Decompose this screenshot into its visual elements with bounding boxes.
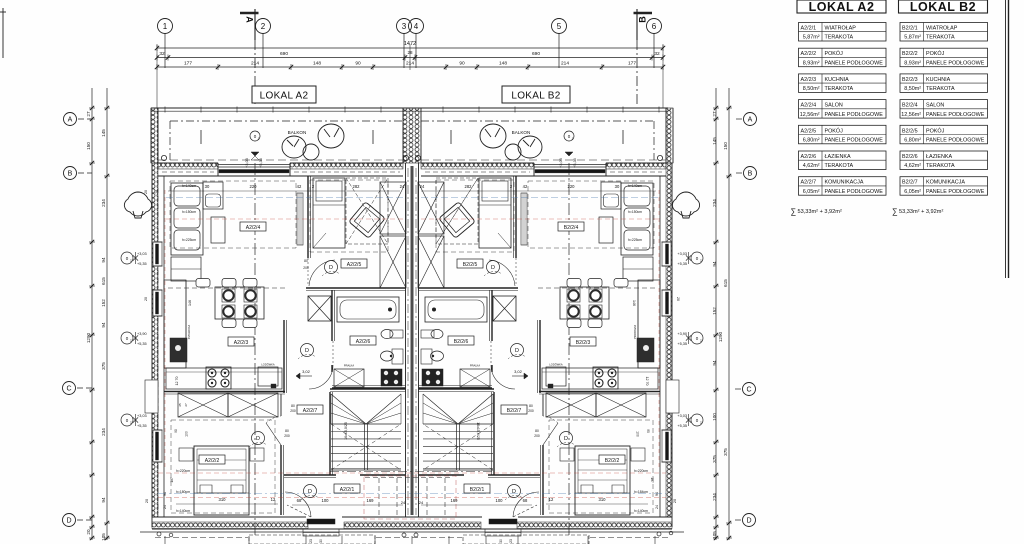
svg-text:TERAKOTA: TERAKOTA bbox=[926, 86, 955, 92]
svg-text:146: 146 bbox=[188, 300, 192, 306]
table row A2/2/5 POKÓJ bbox=[799, 125, 887, 144]
riser line red right wall bbox=[658, 190, 660, 470]
black dashed verticals hall B2 bbox=[444, 478, 446, 516]
level marker O2 right 3 bbox=[691, 414, 703, 426]
interior wall bedroom top A2 bbox=[164, 391, 285, 393]
stairs winder fan A2 bbox=[331, 394, 366, 424]
svg-text:B: B bbox=[68, 171, 73, 178]
svg-text:282: 282 bbox=[465, 184, 473, 189]
svg-text:6,05m²: 6,05m² bbox=[803, 189, 820, 195]
heating pipe line red upper A2 bbox=[166, 218, 403, 220]
svg-text:B2/2/2: B2/2/2 bbox=[902, 51, 918, 57]
svg-text:152: 152 bbox=[101, 299, 106, 307]
bedside tables B2 bbox=[631, 448, 645, 461]
svg-text:KOMUNIKACJA: KOMUNIKACJA bbox=[825, 180, 864, 186]
svg-text:27: 27 bbox=[86, 111, 91, 117]
table row B2/2/4 SALON bbox=[900, 100, 988, 119]
balcony post mark left 2 bbox=[372, 130, 374, 144]
kitchen sink B2 bbox=[637, 338, 654, 362]
heating pipe line red lower 1 bbox=[158, 472, 666, 474]
svg-text:D: D bbox=[256, 436, 260, 442]
svg-text:A: A bbox=[245, 16, 255, 23]
svg-text:145: 145 bbox=[101, 129, 106, 137]
svg-text:148: 148 bbox=[499, 61, 507, 67]
svg-text:145: 145 bbox=[712, 137, 717, 145]
svg-text:B2/2/1: B2/2/1 bbox=[902, 26, 918, 32]
svg-text:+3,03: +3,03 bbox=[245, 158, 249, 168]
stairs winder fan B2 bbox=[458, 394, 493, 424]
svg-text:+5,35: +5,35 bbox=[677, 262, 687, 266]
svg-text:PANELE PODŁOGOWE: PANELE PODŁOGOWE bbox=[926, 189, 985, 195]
toilet B2 bbox=[421, 330, 434, 338]
column marker right corner bbox=[657, 155, 662, 160]
svg-text:8,50m²: 8,50m² bbox=[904, 86, 921, 92]
svg-text:53,33m² + 3,92m²: 53,33m² + 3,92m² bbox=[798, 209, 842, 215]
svg-text:+3,90: +3,90 bbox=[137, 332, 147, 336]
kitchen counter bottom A2 bbox=[166, 368, 282, 389]
svg-text:30: 30 bbox=[205, 184, 210, 189]
side shelf salon B2 bbox=[623, 257, 653, 281]
armchair room5 B2 bbox=[439, 202, 476, 239]
dashed wardrobe projection room5 B2 bbox=[436, 178, 478, 244]
interior wall bathroom left B2 bbox=[491, 290, 493, 341]
interior wall bathroom left A2 bbox=[331, 290, 333, 341]
top exterior wall insulation left segment bbox=[158, 163, 218, 169]
axis circle A right bbox=[744, 113, 757, 126]
wardrobe column room5 A2 bbox=[380, 182, 406, 234]
svg-text:B2/2/7: B2/2/7 bbox=[902, 180, 918, 186]
svg-text:A2/2/5: A2/2/5 bbox=[801, 128, 817, 134]
svg-text:h=180cm: h=180cm bbox=[176, 490, 190, 494]
svg-text:53,33m² + 3,92m²: 53,33m² + 3,92m² bbox=[899, 209, 943, 215]
entrance door B2 bbox=[489, 519, 517, 524]
svg-text:100: 100 bbox=[712, 413, 717, 421]
svg-text:200: 200 bbox=[528, 409, 534, 413]
bottom exterior wall body bbox=[152, 516, 306, 518]
svg-text:68: 68 bbox=[523, 498, 528, 503]
svg-text:20: 20 bbox=[676, 297, 680, 301]
svg-text:25: 25 bbox=[178, 403, 182, 407]
svg-text:4,62m²: 4,62m² bbox=[904, 163, 921, 169]
black dashed verticals hall A2 bbox=[378, 478, 380, 516]
svg-text:24: 24 bbox=[400, 184, 405, 189]
paving dashes below right terrace bbox=[463, 535, 589, 544]
bedroom door leaf B2 bbox=[543, 423, 558, 445]
svg-text:12,56m²: 12,56m² bbox=[901, 112, 921, 118]
svg-text:152: 152 bbox=[712, 307, 717, 315]
kitchen hob B2 bbox=[593, 367, 618, 389]
dining table A2 bbox=[215, 287, 264, 319]
top exterior wall body left bbox=[158, 162, 218, 164]
axis circle 2 bbox=[256, 19, 271, 34]
radiator A2 bbox=[297, 193, 303, 245]
svg-text:B2/2/5: B2/2/5 bbox=[463, 262, 478, 268]
stairs treads B2 bbox=[423, 423, 493, 425]
kitchen counter left B2 bbox=[638, 280, 660, 368]
door marker D4 A2 bbox=[325, 261, 338, 274]
section line B-B bbox=[636, 9, 638, 40]
svg-text:32: 32 bbox=[654, 51, 660, 57]
right dimension chain outer bbox=[728, 88, 730, 540]
svg-text:A: A bbox=[68, 117, 73, 124]
svg-text:6,80m²: 6,80m² bbox=[803, 138, 820, 144]
svg-text:90: 90 bbox=[174, 429, 178, 433]
dashed outline bedroom A2 bbox=[171, 420, 275, 513]
svg-text:+3,03: +3,03 bbox=[677, 252, 687, 256]
balcony center party wall upper bbox=[403, 108, 421, 163]
svg-text:80: 80 bbox=[535, 429, 539, 433]
axis circle 6 bbox=[647, 19, 662, 34]
left dimension chain outer bbox=[91, 88, 93, 540]
balcony post mark left 1 bbox=[200, 130, 202, 144]
svg-text:94: 94 bbox=[712, 360, 717, 366]
dash-dot line below stairs bbox=[330, 471, 494, 473]
svg-text:94: 94 bbox=[101, 322, 106, 328]
svg-text:148: 148 bbox=[313, 61, 321, 67]
radiator B2 bbox=[521, 193, 527, 245]
axis circle 1 bbox=[158, 19, 173, 34]
svg-text:+3,90: +3,90 bbox=[677, 332, 687, 336]
washbasin A2 bbox=[392, 349, 403, 364]
door marker D4 B2 bbox=[487, 261, 500, 274]
svg-text:KOMUNIKACJA: KOMUNIKACJA bbox=[926, 180, 965, 186]
room label A2/2/4 bbox=[240, 222, 266, 231]
room label B2/2/2 bbox=[599, 455, 625, 464]
stairs dashed cross B2 bbox=[423, 424, 493, 470]
dimension line row 690/28/690 bbox=[157, 57, 663, 59]
svg-text:169: 169 bbox=[451, 498, 459, 503]
left exterior wall body bbox=[151, 163, 153, 527]
balcony plant left 2 bbox=[318, 124, 344, 148]
svg-text:3,02: 3,02 bbox=[302, 369, 311, 374]
svg-text:h=140cm: h=140cm bbox=[628, 184, 642, 188]
right exterior wall body bbox=[671, 163, 673, 527]
axis circle C right bbox=[743, 383, 756, 396]
svg-text:2: 2 bbox=[261, 22, 266, 31]
balcony plant right 3 bbox=[505, 144, 521, 160]
svg-text:LOKAL A2: LOKAL A2 bbox=[260, 91, 309, 102]
svg-text:8,93m²: 8,93m² bbox=[803, 60, 820, 66]
extension line right bbox=[662, 44, 664, 108]
axis circle C left bbox=[63, 382, 76, 395]
ventilation shaft B2 bbox=[493, 296, 516, 321]
table row A2/2/6 ŁAZIENKA bbox=[799, 151, 887, 170]
svg-text:h=220cm: h=220cm bbox=[634, 469, 648, 473]
level marker O2 left 2 bbox=[121, 332, 133, 344]
interior wall bathroom bottom B2 bbox=[419, 387, 493, 389]
svg-text:D: D bbox=[66, 518, 71, 525]
svg-text:100: 100 bbox=[496, 498, 504, 503]
svg-text:h=140cm: h=140cm bbox=[176, 509, 190, 513]
svg-text:200: 200 bbox=[284, 434, 290, 438]
sheet edge mark top-left bbox=[2, 8, 4, 58]
svg-text:690: 690 bbox=[280, 51, 288, 57]
svg-text:80: 80 bbox=[529, 404, 533, 408]
stairs treads A2 bbox=[331, 423, 401, 425]
svg-text:24: 24 bbox=[665, 297, 669, 301]
boiler A2 bbox=[381, 369, 402, 386]
kitchen hob A2 bbox=[206, 367, 231, 389]
svg-text:A: A bbox=[748, 117, 753, 124]
extension line left bbox=[156, 44, 158, 108]
small circles bottom right bbox=[657, 532, 661, 536]
svg-text:150: 150 bbox=[723, 142, 728, 150]
bathtub B2 bbox=[425, 297, 487, 322]
top exterior wall insulation right segments bbox=[421, 163, 534, 169]
svg-text:94: 94 bbox=[163, 492, 167, 496]
svg-text:+5,35: +5,35 bbox=[677, 342, 687, 346]
svg-text:42: 42 bbox=[523, 184, 528, 189]
svg-text:220: 220 bbox=[568, 184, 576, 189]
svg-text:68: 68 bbox=[297, 498, 302, 503]
svg-text:16x15,0/25: 16x15,0/25 bbox=[476, 422, 480, 440]
svg-text:B2/2/4: B2/2/4 bbox=[902, 103, 918, 109]
svg-text:12: 12 bbox=[271, 497, 276, 502]
level marker O2 right 1 bbox=[691, 252, 703, 264]
interior wall room5 bottom B2 bbox=[419, 287, 519, 289]
svg-text:h=184cm: h=184cm bbox=[634, 490, 648, 494]
svg-text:94: 94 bbox=[101, 497, 106, 503]
interior wall salon/room5 divider B2 bbox=[515, 176, 517, 258]
right wall window 2 (kitchen) bbox=[662, 290, 671, 316]
interior wall stairs left B2 bbox=[493, 392, 495, 475]
interior wall hall top B2 bbox=[488, 474, 540, 476]
room label A2/2/7 bbox=[297, 405, 323, 414]
balcony level marker O1 right bbox=[564, 131, 574, 141]
svg-text:D: D bbox=[746, 518, 751, 525]
svg-text:LOKAL B2: LOKAL B2 bbox=[910, 0, 976, 14]
svg-text:100: 100 bbox=[185, 431, 189, 437]
svg-text:27: 27 bbox=[184, 403, 188, 407]
table header LOKAL A2 bbox=[797, 0, 886, 13]
svg-text:24: 24 bbox=[155, 190, 159, 194]
kitchen counter bottom B2 bbox=[542, 368, 658, 389]
axis circle 3 bbox=[397, 19, 412, 34]
svg-text:80: 80 bbox=[285, 429, 289, 433]
dining chairs B2 bbox=[588, 279, 602, 288]
dashed outline salon A2 bbox=[170, 181, 296, 248]
svg-text:200: 200 bbox=[534, 434, 540, 438]
svg-text:24: 24 bbox=[155, 297, 159, 301]
svg-text:B2/2/3: B2/2/3 bbox=[902, 77, 918, 83]
svg-text:20: 20 bbox=[86, 529, 91, 535]
section line B-B lower part bbox=[568, 163, 570, 538]
axis stub 6 bbox=[653, 34, 655, 69]
label box LOKAL B2 bbox=[502, 86, 570, 103]
svg-text:90: 90 bbox=[646, 429, 650, 433]
table row A2/2/7 KOMUNIKACJA bbox=[799, 177, 887, 196]
svg-text:A2/2/7: A2/2/7 bbox=[801, 180, 817, 186]
svg-text:8,93m²: 8,93m² bbox=[904, 60, 921, 66]
table header LOKAL B2 bbox=[899, 0, 988, 13]
svg-text:16x15,0/25: 16x15,0/25 bbox=[344, 422, 348, 440]
svg-text:PANELE PODŁOGOWE: PANELE PODŁOGOWE bbox=[825, 189, 884, 195]
svg-text:169: 169 bbox=[367, 498, 375, 503]
right wall window 3 (bedroom) bbox=[662, 430, 671, 462]
svg-text:A2/2/2: A2/2/2 bbox=[801, 51, 817, 57]
svg-text:PANELE PODŁOGOWE: PANELE PODŁOGOWE bbox=[926, 138, 985, 144]
dashed outline bedroom B2 bbox=[549, 420, 653, 513]
room label B2/2/1 bbox=[464, 484, 490, 493]
interior wall bedroom right B2 bbox=[542, 394, 544, 416]
svg-text:POKÓJ: POKÓJ bbox=[926, 50, 945, 57]
svg-text:D: D bbox=[491, 265, 495, 271]
balcony post mark right 1 bbox=[622, 130, 624, 144]
svg-text:KUCHNIA: KUCHNIA bbox=[825, 77, 850, 83]
svg-text:234: 234 bbox=[101, 428, 106, 436]
washing machine B2 bbox=[460, 369, 490, 387]
svg-text:1472: 1472 bbox=[404, 41, 416, 47]
svg-text:234: 234 bbox=[101, 199, 106, 207]
svg-text:B2/2/2: B2/2/2 bbox=[605, 458, 620, 464]
svg-text:A2/2/6: A2/2/6 bbox=[801, 154, 817, 160]
svg-text:D: D bbox=[329, 265, 333, 271]
left exterior wall insulation bbox=[152, 163, 158, 517]
svg-text:LOKAL B2: LOKAL B2 bbox=[511, 91, 560, 102]
wardrobe column room5 B2 bbox=[418, 182, 444, 234]
party wall bbox=[405, 163, 407, 517]
svg-text:SALON: SALON bbox=[926, 103, 944, 109]
svg-text:12,56m²: 12,56m² bbox=[800, 112, 820, 118]
svg-text:+3,03: +3,03 bbox=[677, 414, 687, 418]
door marker D1 A2 hall bbox=[304, 485, 317, 498]
svg-text:B2/2/1: B2/2/1 bbox=[470, 487, 485, 493]
bed room5 A2 bbox=[313, 178, 345, 248]
section line A-A bbox=[254, 9, 256, 40]
svg-text:24: 24 bbox=[419, 500, 424, 505]
svg-text:32: 32 bbox=[159, 51, 165, 57]
svg-text:94: 94 bbox=[655, 492, 659, 496]
svg-text:PANELE PODŁOGOWE: PANELE PODŁOGOWE bbox=[825, 112, 884, 118]
svg-text:PRALKA: PRALKA bbox=[344, 364, 355, 368]
dining plates A2 bbox=[222, 289, 235, 302]
svg-text:D: D bbox=[564, 436, 568, 442]
left wall window 1 (salon) bbox=[153, 242, 162, 266]
coffee table salon A2 bbox=[211, 217, 225, 243]
heating pipe line red upper B2 bbox=[421, 218, 658, 220]
svg-text:BALKON: BALKON bbox=[288, 130, 307, 135]
svg-text:+5,35: +5,35 bbox=[259, 158, 263, 168]
water line blue upper A2 bbox=[166, 197, 403, 199]
svg-text:B2/2/7: B2/2/7 bbox=[507, 408, 522, 414]
svg-text:PANELE PODŁOGOWE: PANELE PODŁOGOWE bbox=[926, 60, 985, 66]
svg-text:23: 23 bbox=[509, 539, 513, 543]
svg-text:+5,35: +5,35 bbox=[677, 424, 687, 428]
svg-text:375: 375 bbox=[712, 455, 717, 463]
svg-text:30: 30 bbox=[499, 539, 503, 543]
riser line red left wall bbox=[164, 190, 166, 470]
left dimension chain inner bbox=[106, 88, 108, 540]
svg-text:+3,03: +3,03 bbox=[559, 158, 563, 168]
door marker D1 B2 hall bbox=[508, 485, 521, 498]
dining plates B2 bbox=[589, 289, 602, 302]
bedside tables A2 bbox=[179, 448, 193, 461]
stairs center stringer A2 bbox=[364, 424, 366, 470]
svg-text:A2/2/4: A2/2/4 bbox=[801, 103, 817, 109]
svg-text:90: 90 bbox=[459, 61, 465, 67]
svg-text:42: 42 bbox=[297, 184, 302, 189]
svg-text:ŁAZIENKA: ŁAZIENKA bbox=[926, 154, 952, 160]
svg-text:1290: 1290 bbox=[718, 331, 723, 342]
svg-text:+5,35: +5,35 bbox=[137, 262, 147, 266]
svg-text:310: 310 bbox=[599, 497, 607, 502]
svg-text:B2/2/5: B2/2/5 bbox=[902, 128, 918, 134]
svg-text:214: 214 bbox=[406, 61, 414, 67]
bottom cut dimension ticks bbox=[164, 536, 166, 544]
bed bedroom B2 bbox=[575, 446, 630, 515]
dashed outline room5 B2 bbox=[436, 180, 514, 252]
interior wall bedroom right A2 bbox=[280, 394, 282, 416]
svg-text:24: 24 bbox=[401, 500, 406, 505]
balcony window right (salon B2) bbox=[534, 164, 606, 166]
room label A2/2/2 bbox=[199, 455, 225, 464]
svg-text:TERAKOTA: TERAKOTA bbox=[926, 163, 955, 169]
axis stub 1 bbox=[164, 34, 166, 69]
svg-text:3,02: 3,02 bbox=[514, 369, 523, 374]
svg-text:90: 90 bbox=[355, 61, 361, 67]
axis stub 4 bbox=[415, 34, 417, 69]
bottom exterior wall insulation bbox=[152, 522, 308, 529]
svg-text:D: D bbox=[305, 348, 309, 354]
washing machine A2 bbox=[334, 369, 364, 387]
interior wall salon/room5 divider A2 bbox=[307, 176, 309, 258]
right exterior wall insulation bbox=[666, 163, 672, 517]
svg-text:WIATROŁAP: WIATROŁAP bbox=[926, 26, 958, 32]
door marker D2 B2 bbox=[511, 344, 524, 357]
interior wall kitchen/corridor A2 bbox=[283, 320, 285, 393]
svg-text:24: 24 bbox=[420, 184, 425, 189]
kitchen counter left A2 bbox=[164, 280, 186, 368]
axis circle B right bbox=[744, 167, 757, 180]
room label B2/2/7 bbox=[501, 405, 527, 414]
svg-text:310: 310 bbox=[219, 497, 227, 502]
svg-text:B: B bbox=[748, 171, 753, 178]
table row B2/2/3 KUCHNIA bbox=[900, 74, 988, 93]
boiler B2 bbox=[422, 369, 443, 386]
svg-text:200: 200 bbox=[290, 409, 296, 413]
door marker D1 B2 bedroom bbox=[560, 432, 573, 445]
svg-text:+3,03: +3,03 bbox=[137, 252, 147, 256]
svg-text:∑: ∑ bbox=[892, 207, 898, 216]
svg-text:BALKON: BALKON bbox=[512, 130, 531, 135]
balcony plant right 2 bbox=[480, 124, 506, 148]
svg-text:WIATROŁAP: WIATROŁAP bbox=[825, 26, 857, 32]
in-plan dim line top B2 bbox=[421, 190, 656, 192]
axis circle 4 bbox=[409, 19, 424, 34]
interior wall kitchen/corridor B2 bbox=[539, 320, 541, 393]
svg-text:ZMYWARKA: ZMYWARKA bbox=[633, 325, 636, 340]
svg-text:12 70: 12 70 bbox=[175, 377, 179, 386]
svg-text:1: 1 bbox=[163, 22, 168, 31]
room label B2/2/4 bbox=[558, 222, 584, 231]
interior wall bedroom top B2 bbox=[539, 391, 660, 393]
dining table B2 bbox=[560, 287, 609, 319]
dimension line row 177/214/148/90/214/90/148/214/177 bbox=[157, 66, 663, 68]
balcony inner dashed outline right bbox=[421, 120, 654, 122]
svg-text:177: 177 bbox=[628, 61, 636, 67]
table row B2/2/1 WIATROŁAP bbox=[900, 23, 988, 42]
table row A2/2/4 SALON bbox=[799, 100, 887, 119]
balcony left side wall bbox=[151, 108, 158, 163]
svg-text:100: 100 bbox=[636, 431, 640, 437]
balcony level marker O1 left bbox=[250, 131, 260, 141]
interior wall stairs top A2 bbox=[330, 388, 406, 390]
svg-text:A2/2/1: A2/2/1 bbox=[340, 487, 355, 493]
svg-text:B: B bbox=[638, 16, 648, 23]
right wall pilaster bbox=[666, 380, 679, 413]
svg-text:LOKAL A2: LOKAL A2 bbox=[809, 0, 875, 14]
svg-text:23: 23 bbox=[309, 539, 313, 543]
